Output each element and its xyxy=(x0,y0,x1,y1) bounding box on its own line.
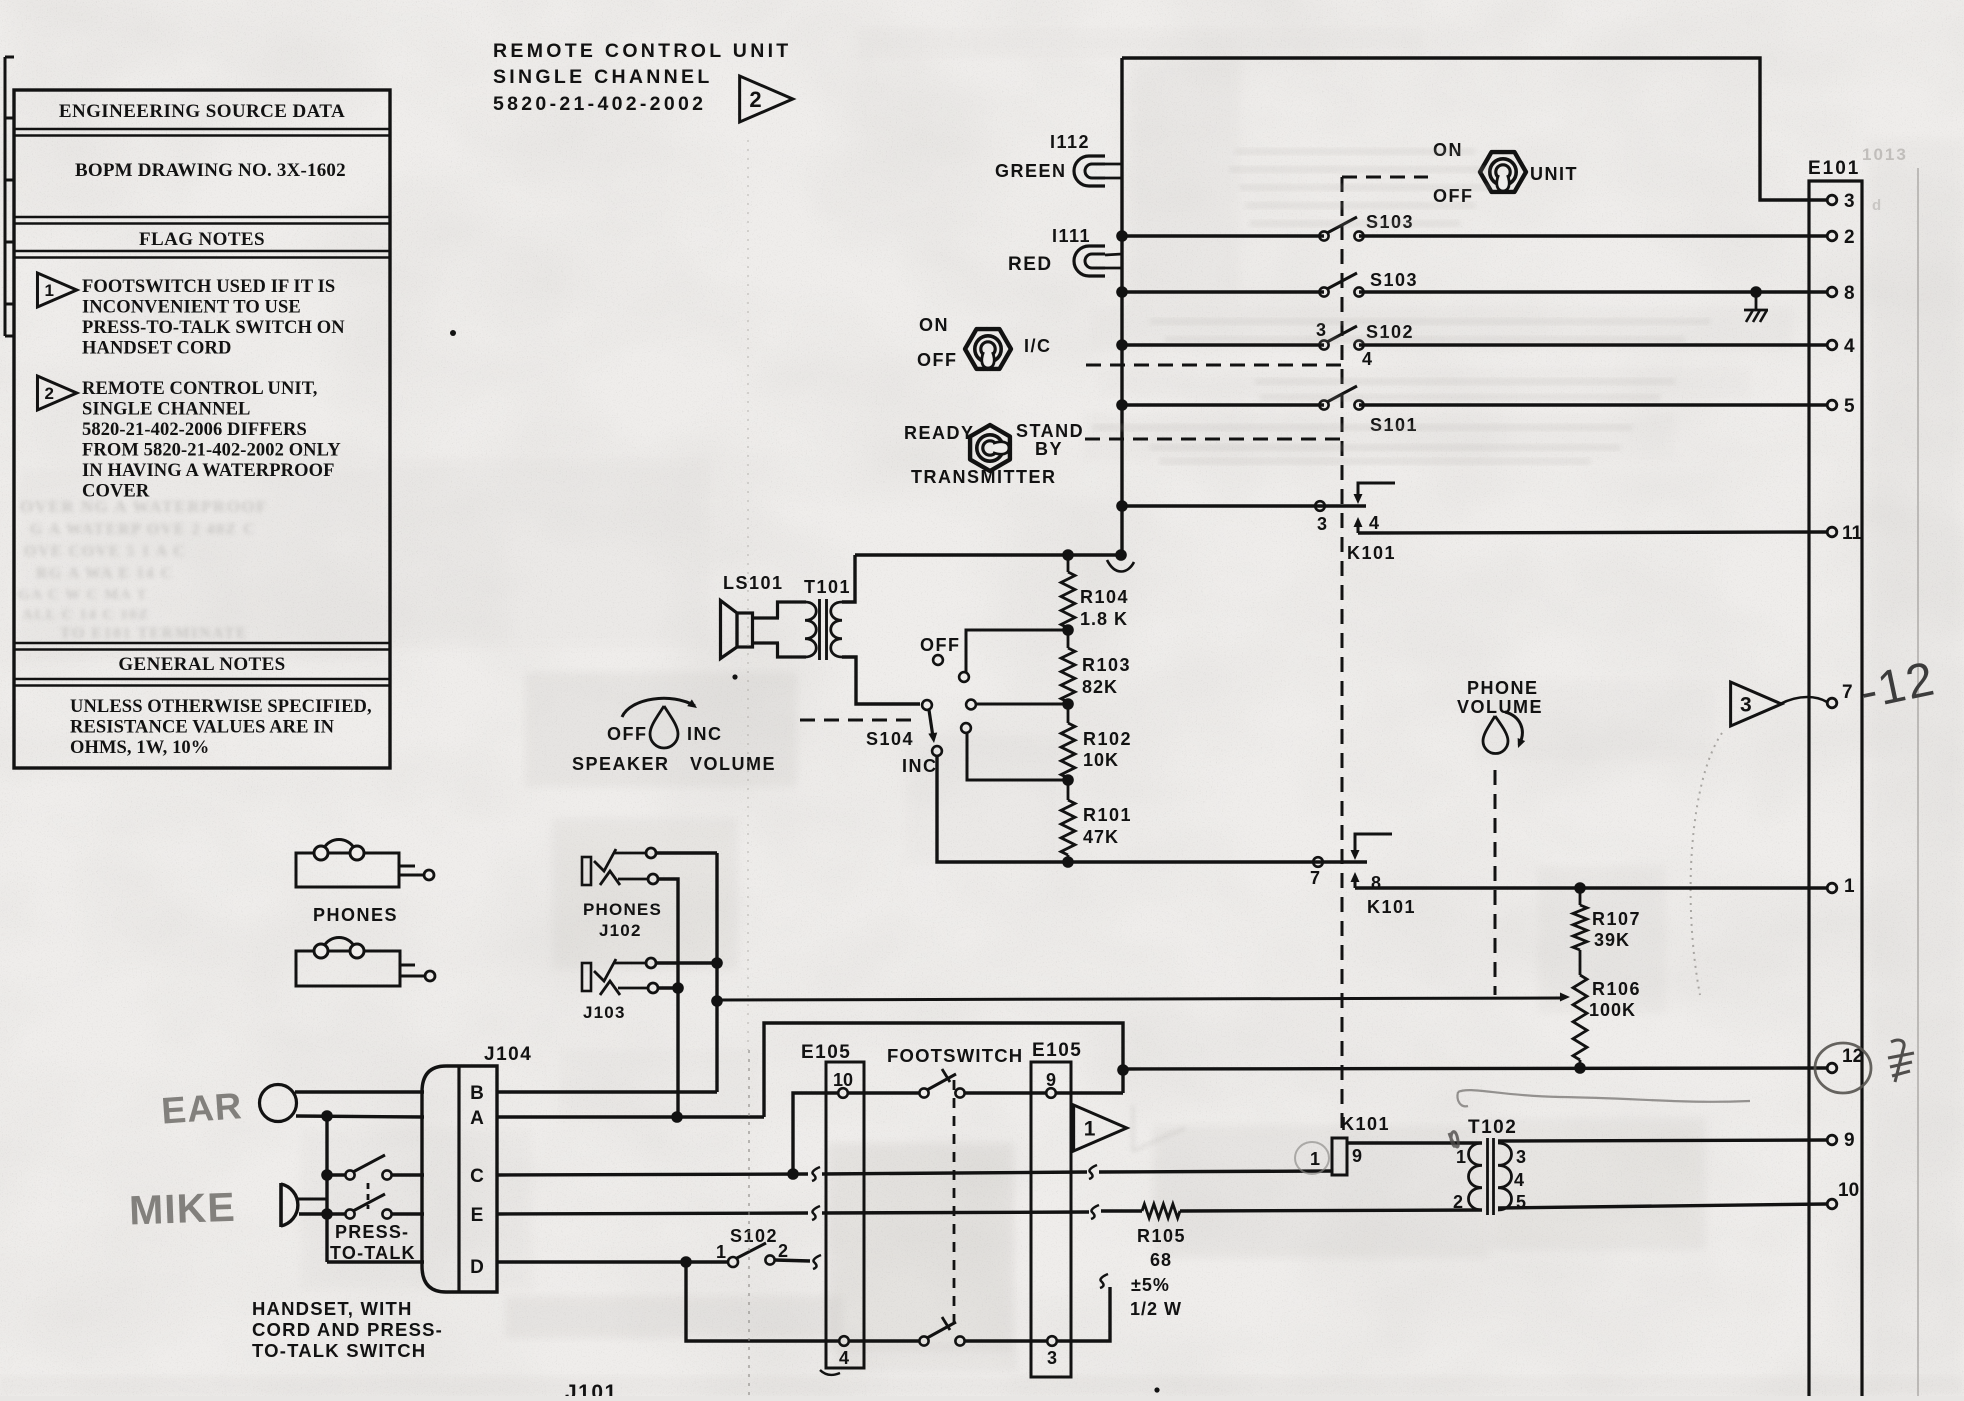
svg-text:J101: J101 xyxy=(565,1381,618,1396)
svg-text:EAR: EAR xyxy=(160,1085,244,1132)
svg-text:82K: 82K xyxy=(1082,677,1118,697)
svg-text:PHONES: PHONES xyxy=(313,905,398,925)
svg-text:GA C W C MA T: GA C W C MA T xyxy=(18,587,148,603)
footswitch lower contact xyxy=(919,1317,964,1346)
svg-text:K101: K101 xyxy=(1341,1114,1390,1134)
wire T102 pin 5 to terminal 10 xyxy=(1498,1204,1827,1208)
junction xyxy=(1116,286,1128,298)
ground xyxy=(1744,286,1768,322)
wire row to terminal 4 xyxy=(1122,343,1324,346)
svg-text:3: 3 xyxy=(1516,1147,1526,1167)
wire break mark xyxy=(812,1167,820,1181)
resistor R101 xyxy=(1061,778,1132,862)
svg-text:LS101: LS101 xyxy=(723,573,784,593)
flag 2 at title xyxy=(740,76,793,122)
svg-text:8: 8 xyxy=(1844,283,1855,304)
headphone symbol upper xyxy=(296,840,434,887)
svg-text:B: B xyxy=(470,1083,484,1104)
transformer T101 xyxy=(778,577,852,660)
svg-text:5820-21-402-2002: 5820-21-402-2002 xyxy=(493,93,706,115)
svg-text:RG A WA E 14 C: RG A WA E 14 C xyxy=(36,565,174,582)
svg-text:2: 2 xyxy=(44,384,53,403)
svg-text:1: 1 xyxy=(44,281,53,300)
pen squiggle under junction xyxy=(1107,560,1134,572)
svg-text:4: 4 xyxy=(1362,349,1372,369)
svg-text:FOOTSWITCH USED IF IT IS: FOOTSWITCH USED IF IT IS xyxy=(82,277,335,297)
pencil circle around pin 1 xyxy=(1295,1142,1329,1174)
wire E row continues xyxy=(822,1212,1089,1213)
wire C row to J104 xyxy=(392,1173,424,1176)
relay contact K101 7-8 xyxy=(1310,834,1416,917)
wire row to terminal 12 xyxy=(1123,1068,1827,1069)
jack J103 xyxy=(582,958,658,1022)
lamp I112 xyxy=(995,132,1122,186)
junction xyxy=(1574,1062,1586,1074)
svg-text:SINGLE CHANNEL: SINGLE CHANNEL xyxy=(82,400,250,420)
wire row K101 contact 3 xyxy=(1122,504,1366,507)
resistor R107 xyxy=(1573,888,1641,975)
E101 terminal 5 xyxy=(1827,396,1855,417)
svg-text:10: 10 xyxy=(1838,1180,1859,1201)
handwritten EAR xyxy=(160,1085,244,1132)
svg-text:E101: E101 xyxy=(1808,158,1860,179)
wire main bus xyxy=(1120,58,1123,555)
E101 terminal 7 xyxy=(1827,682,1852,708)
wire loop to terminal 12 feed xyxy=(764,1023,1123,1117)
svg-text:R102: R102 xyxy=(1083,729,1132,749)
svg-text:I111: I111 xyxy=(1052,226,1091,246)
resistor R103 xyxy=(1061,628,1131,702)
junction xyxy=(671,1111,683,1123)
svg-text:ENGINEERING SOURCE DATA: ENGINEERING SOURCE DATA xyxy=(59,101,345,122)
E101 terminal 1 xyxy=(1827,876,1855,897)
wire handset common vertical xyxy=(325,1116,328,1262)
wire J103 ring xyxy=(658,986,678,989)
svg-text:R107: R107 xyxy=(1592,909,1641,929)
mechanical link dashed PHONE VOLUME to R106 xyxy=(1494,770,1497,995)
svg-text:SINGLE CHANNEL: SINGLE CHANNEL xyxy=(493,66,713,88)
junction xyxy=(672,982,684,994)
svg-text:R106: R106 xyxy=(1592,979,1641,999)
wire J102 ring down xyxy=(658,879,678,988)
pencil scribble right of terminal 12 xyxy=(1888,1040,1914,1082)
svg-text:INCONVENIENT TO USE: INCONVENIENT TO USE xyxy=(82,298,301,318)
svg-text:S103: S103 xyxy=(1370,270,1418,290)
drawing title xyxy=(493,40,792,115)
switch S101 xyxy=(1319,386,1418,435)
speaker LS101 xyxy=(721,573,784,680)
svg-text:RED: RED xyxy=(1008,254,1053,275)
svg-text:STAND: STAND xyxy=(1016,421,1084,441)
svg-text:3: 3 xyxy=(1844,191,1855,212)
mechanical link dashed I/C xyxy=(1086,364,1342,367)
flag note 2 marker xyxy=(37,376,76,410)
wire D net to E105-4 xyxy=(686,1262,839,1341)
svg-text:E105: E105 xyxy=(801,1042,851,1063)
junction xyxy=(321,1208,333,1220)
mechanical link dashed S104 xyxy=(800,719,917,722)
svg-text:A: A xyxy=(470,1108,484,1129)
svg-text:K101: K101 xyxy=(1367,897,1416,917)
junction xyxy=(680,1256,692,1268)
junction xyxy=(1115,549,1127,561)
junction xyxy=(1062,698,1074,710)
E101 terminal 12 xyxy=(1827,1046,1863,1073)
wire row to terminal 11 xyxy=(1358,532,1827,533)
wire earpiece to J104 A xyxy=(296,1116,424,1117)
svg-text:8: 8 xyxy=(1371,873,1381,893)
svg-text:1: 1 xyxy=(1084,1118,1096,1141)
svg-text:2: 2 xyxy=(749,87,761,112)
svg-text:5: 5 xyxy=(1844,396,1855,417)
svg-text:3: 3 xyxy=(1317,514,1327,534)
svg-text:MIKE: MIKE xyxy=(128,1184,236,1234)
switch S103 section B xyxy=(1319,270,1418,297)
svg-text:2: 2 xyxy=(778,1241,788,1261)
svg-text:BY: BY xyxy=(1035,439,1063,459)
svg-text:ALL C 14 C 10Z: ALL C 14 C 10Z xyxy=(22,607,150,623)
svg-text:FOOTSWITCH: FOOTSWITCH xyxy=(887,1045,1023,1066)
svg-text:INC: INC xyxy=(687,724,723,744)
wire R105 to T102 pin 2 xyxy=(1180,1210,1482,1211)
wire from S102 contact 2 xyxy=(775,1260,810,1261)
HANDSET label xyxy=(252,1298,443,1361)
switch press-to-talk E xyxy=(345,1194,391,1219)
junction xyxy=(1116,230,1128,242)
junction xyxy=(1116,500,1128,512)
pencil wavy line xyxy=(1458,1090,1750,1102)
svg-text:PHONE: PHONE xyxy=(1467,678,1539,698)
earpiece xyxy=(260,1085,297,1122)
E101 terminal 3 xyxy=(1827,191,1854,212)
junction xyxy=(321,1169,333,1181)
svg-text:100K: 100K xyxy=(1589,1000,1636,1020)
svg-text:J103: J103 xyxy=(583,1003,626,1022)
junction xyxy=(321,1110,333,1122)
junction xyxy=(1116,339,1128,351)
junction xyxy=(1062,549,1074,561)
wire S104 INC to bottom row xyxy=(937,756,1367,862)
wire to terminal 7 xyxy=(1780,697,1827,704)
wire E row xyxy=(497,1213,808,1214)
wire break mark xyxy=(813,1255,821,1269)
wire T101 secondary to top xyxy=(842,555,855,602)
wire E row to R105 xyxy=(1101,1209,1142,1212)
wire C row to K101 coil xyxy=(1099,1171,1332,1172)
junction xyxy=(1574,882,1586,894)
wire footswitch to E105-9 xyxy=(965,1091,1046,1094)
svg-text:10K: 10K xyxy=(1083,750,1119,770)
wire E105-4 to lower footswitch xyxy=(849,1339,919,1342)
relay coil K101 xyxy=(1310,1114,1390,1175)
wire E105-10 to footswitch xyxy=(848,1091,919,1094)
svg-text:UNLESS OTHERWISE SPECIFIED,: UNLESS OTHERWISE SPECIFIED, xyxy=(70,697,372,717)
wire top feed xyxy=(1122,58,1827,200)
svg-text:1: 1 xyxy=(1844,876,1855,897)
svg-text:R103: R103 xyxy=(1082,655,1131,675)
svg-text:TRANSMITTER: TRANSMITTER xyxy=(911,467,1057,487)
wire break mark xyxy=(812,1206,820,1220)
svg-text:TO-TALK SWITCH: TO-TALK SWITCH xyxy=(252,1340,426,1361)
wire E105-3 return up xyxy=(1057,1287,1110,1341)
wire break mark xyxy=(1100,1274,1108,1288)
svg-text:E105: E105 xyxy=(1032,1040,1082,1061)
svg-text:OVER NG A WATERPROOF: OVER NG A WATERPROOF xyxy=(20,497,268,516)
svg-text:VOLUME: VOLUME xyxy=(1457,697,1543,717)
svg-text:BOPM DRAWING NO. 3X-1602: BOPM DRAWING NO. 3X-1602 xyxy=(75,160,346,181)
wire S104 pos1 to R104/R103 junction xyxy=(966,630,1068,672)
switch S102 handset contacts 1-2 xyxy=(716,1226,788,1267)
wire C row continues xyxy=(822,1172,1087,1174)
junction xyxy=(787,1168,799,1180)
svg-text:OFF: OFF xyxy=(917,350,958,370)
handwritten -12 xyxy=(1856,652,1941,720)
sheet border line xyxy=(1917,168,1919,1396)
svg-text:REMOTE CONTROL UNIT: REMOTE CONTROL UNIT xyxy=(493,40,792,62)
E101 terminal 8 xyxy=(1827,283,1854,304)
svg-text:S104: S104 xyxy=(866,729,914,749)
junction xyxy=(1117,1064,1129,1076)
resistor R105 xyxy=(1130,1204,1186,1319)
wire ring net down to A row xyxy=(676,988,679,1117)
wire S104 pos2 to R103/R102 junction xyxy=(976,703,1068,706)
E101 terminal 9 xyxy=(1827,1130,1854,1151)
svg-text:J104: J104 xyxy=(484,1044,532,1065)
transformer T102 xyxy=(1453,1117,1526,1215)
svg-text:PRESS-TO-TALK SWITCH ON: PRESS-TO-TALK SWITCH ON xyxy=(82,318,345,338)
lamp I111 xyxy=(1008,226,1122,276)
svg-text:OFF: OFF xyxy=(607,724,648,744)
wire D row from common xyxy=(327,1260,424,1263)
svg-text:IN HAVING A WATERPROOF: IN HAVING A WATERPROOF xyxy=(82,461,335,481)
svg-text:ON: ON xyxy=(919,315,949,335)
terminal strip E105 left xyxy=(801,1042,864,1375)
svg-text:OHMS, 1W, 10%: OHMS, 1W, 10% xyxy=(70,738,209,758)
wire B row xyxy=(497,1090,717,1093)
headphone symbol lower xyxy=(296,938,435,986)
junction xyxy=(1062,624,1074,636)
terminal strip E105 right xyxy=(1031,1040,1082,1377)
svg-text:R104: R104 xyxy=(1080,587,1129,607)
svg-text:J102: J102 xyxy=(599,921,642,940)
wire E105-10 drop xyxy=(793,1093,838,1174)
svg-text:R105: R105 xyxy=(1137,1226,1186,1246)
footswitch upper contact xyxy=(919,1069,964,1098)
switch S102 contacts 3-4 xyxy=(1316,320,1414,369)
svg-text:1/2 W: 1/2 W xyxy=(1130,1299,1182,1319)
svg-text:T101: T101 xyxy=(804,577,851,597)
wire E row to J104 xyxy=(392,1212,424,1215)
handwritten MIKE xyxy=(128,1184,236,1234)
toggle switch UNIT xyxy=(1433,140,1578,206)
wire E105-9 to loop corner xyxy=(1056,1091,1123,1094)
E101 terminal 10 xyxy=(1827,1180,1859,1209)
flag note 1 text xyxy=(82,277,345,359)
wire vertical net B xyxy=(715,853,718,1092)
flag 3 marker xyxy=(1731,682,1782,726)
svg-text:G A WATERP OVE 2 40Z C: G A WATERP OVE 2 40Z C xyxy=(30,521,256,538)
svg-text:FROM 5820-21-402-2002 ONLY: FROM 5820-21-402-2002 ONLY xyxy=(82,441,341,461)
wire C row from common xyxy=(327,1173,345,1176)
wire row to terminal 5 xyxy=(1122,403,1324,406)
mechanical link dashed footswitch xyxy=(953,1080,956,1332)
svg-text:PHONES: PHONES xyxy=(583,900,662,919)
terminal strip E101 xyxy=(1808,158,1862,1396)
svg-text:±5%: ±5% xyxy=(1131,1275,1170,1295)
wire row to terminal 8 xyxy=(1122,290,1324,293)
svg-text:C: C xyxy=(470,1166,484,1187)
wire J103 tip xyxy=(656,961,717,964)
svg-text:OFF: OFF xyxy=(920,635,961,655)
svg-text:FLAG NOTES: FLAG NOTES xyxy=(139,229,265,250)
jack J102 xyxy=(582,848,662,940)
svg-text:d: d xyxy=(1872,197,1883,214)
ghost flag (bleed) xyxy=(1133,1105,1185,1151)
svg-text:1: 1 xyxy=(1456,1147,1466,1167)
svg-text:RESISTANCE VALUES ARE IN: RESISTANCE VALUES ARE IN xyxy=(70,718,335,738)
svg-text:1: 1 xyxy=(716,1242,726,1262)
svg-text:TO E101 TERMINATE: TO E101 TERMINATE xyxy=(60,625,248,642)
connector J104 xyxy=(422,1044,532,1292)
svg-text:47K: 47K xyxy=(1083,827,1119,847)
wire K101 coil to T102 pin 1 xyxy=(1347,1141,1482,1144)
svg-text:K101: K101 xyxy=(1347,543,1396,563)
knob SPEAKER VOLUME xyxy=(572,698,776,774)
svg-text:E: E xyxy=(471,1205,484,1226)
relay contact K101 3-4 xyxy=(1315,483,1396,563)
wire mike top xyxy=(298,1198,327,1201)
resistor R102 xyxy=(1061,702,1132,778)
svg-text:T102: T102 xyxy=(1468,1117,1517,1138)
wire footswitch to E105-3 xyxy=(965,1339,1047,1342)
svg-text:1.8 K: 1.8 K xyxy=(1080,609,1128,629)
wire mike bottom / E row start xyxy=(299,1212,345,1215)
flag note 1 marker xyxy=(37,273,76,307)
fold line xyxy=(747,140,749,1050)
svg-text:VOLUME: VOLUME xyxy=(690,754,776,774)
svg-text:9: 9 xyxy=(1844,1130,1855,1151)
svg-text:7: 7 xyxy=(1310,868,1320,888)
svg-text:4: 4 xyxy=(1514,1170,1524,1190)
wire D row xyxy=(497,1260,728,1263)
svg-text:TO-TALK: TO-TALK xyxy=(330,1243,416,1263)
microphone xyxy=(279,1183,283,1227)
svg-text:11: 11 xyxy=(1842,523,1863,544)
junction xyxy=(1062,774,1074,786)
svg-text:HANDSET CORD: HANDSET CORD xyxy=(82,339,231,359)
switch press-to-talk C xyxy=(345,1155,391,1180)
junction xyxy=(711,957,723,969)
svg-text:9: 9 xyxy=(1352,1146,1362,1166)
svg-text:39K: 39K xyxy=(1594,930,1630,950)
wire T102 pin 3 to terminal 9 xyxy=(1498,1140,1827,1141)
svg-text:INC: INC xyxy=(902,756,938,776)
svg-text:D: D xyxy=(470,1257,484,1278)
E101 terminal 11 xyxy=(1827,523,1862,544)
svg-text:3: 3 xyxy=(1740,694,1752,717)
svg-text:3: 3 xyxy=(1047,1348,1057,1368)
wire break mark xyxy=(1091,1205,1099,1219)
rotary switch TRANSMITTER xyxy=(904,421,1084,487)
svg-text:4: 4 xyxy=(839,1348,849,1368)
svg-text:S102: S102 xyxy=(730,1226,778,1246)
mechanical link dashed (ganged switch S103/S102/S101 to UNIT) xyxy=(1341,177,1344,1133)
svg-text:68: 68 xyxy=(1150,1250,1172,1270)
svg-text:PRESS-: PRESS- xyxy=(335,1222,409,1242)
svg-text:REMOTE CONTROL UNIT,: REMOTE CONTROL UNIT, xyxy=(82,379,318,399)
svg-text:5820-21-402-2006 DIFFERS: 5820-21-402-2006 DIFFERS xyxy=(82,420,307,440)
switch S103 section A xyxy=(1319,212,1414,241)
svg-text:SPEAKER: SPEAKER xyxy=(572,754,670,774)
wire J102 tip to bus xyxy=(656,851,717,854)
wire break mark xyxy=(1089,1165,1097,1179)
svg-text:R101: R101 xyxy=(1083,805,1132,825)
flag note 2 text xyxy=(82,379,341,502)
toggle switch I/C xyxy=(917,315,1052,370)
page edge marks xyxy=(5,57,14,336)
wire C row xyxy=(497,1174,808,1175)
svg-text:7: 7 xyxy=(1842,682,1853,703)
svg-text:I112: I112 xyxy=(1050,132,1090,152)
svg-text:4: 4 xyxy=(1844,336,1855,357)
wire row to terminal 1 xyxy=(1355,886,1827,889)
svg-text:CORD AND PRESS-: CORD AND PRESS- xyxy=(252,1319,443,1340)
svg-text:4: 4 xyxy=(1369,513,1379,533)
svg-text:READY: READY xyxy=(904,423,975,443)
wire S104 pos3 to R102/R101 junction xyxy=(967,733,1068,780)
junction xyxy=(1116,399,1128,411)
wire R106 wiper feed xyxy=(717,998,1560,1000)
wire T101 secondary to S104 xyxy=(842,657,920,704)
pencil scribble at T102 pin 1 xyxy=(1449,1132,1458,1147)
resistor R104 xyxy=(1061,555,1129,629)
svg-text:2: 2 xyxy=(1844,227,1855,248)
svg-text:2: 2 xyxy=(1453,1192,1463,1212)
pencil circle around terminal 12 xyxy=(1815,1043,1871,1093)
potentiometer R106 xyxy=(1573,975,1641,1068)
junction xyxy=(711,995,723,1007)
mechanical link dashed TRANSMITTER xyxy=(1085,438,1342,441)
knob PHONE VOLUME xyxy=(1457,678,1543,754)
wire row to terminal 2 xyxy=(1122,234,1324,237)
E101 terminal 4 xyxy=(1827,336,1855,357)
pencil arc near flag 3 xyxy=(1691,733,1722,995)
svg-text:GENERAL NOTES: GENERAL NOTES xyxy=(118,654,285,675)
wire earpiece to J104 B xyxy=(295,1090,424,1093)
wire top of divider xyxy=(855,553,1121,556)
svg-text:I/C: I/C xyxy=(1024,336,1052,356)
svg-text:1013: 1013 xyxy=(1862,145,1908,164)
ink dot xyxy=(450,330,456,336)
svg-text:1: 1 xyxy=(1310,1149,1320,1169)
junction xyxy=(1062,856,1074,868)
flag 1 marker xyxy=(1074,1105,1127,1151)
PRESS-TO-TALK label xyxy=(330,1222,416,1263)
svg-text:HANDSET, WITH: HANDSET, WITH xyxy=(252,1298,413,1319)
svg-text:UNIT: UNIT xyxy=(1530,164,1578,184)
switch S104 xyxy=(866,635,976,776)
wire A row xyxy=(497,1115,764,1118)
notes title block xyxy=(14,90,390,768)
wire speaker to T101 xyxy=(753,616,780,619)
mechanical link dashed press-to-talk xyxy=(367,1183,370,1209)
svg-text:GREEN: GREEN xyxy=(995,161,1067,181)
svg-text:OVE COVE 5 1 A C: OVE COVE 5 1 A C xyxy=(24,543,186,560)
E101 terminal 2 xyxy=(1827,227,1854,248)
general notes xyxy=(14,643,390,758)
